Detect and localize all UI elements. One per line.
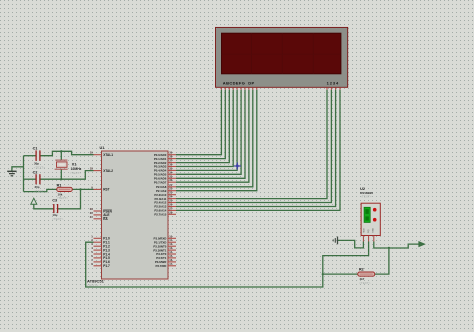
svg-text:25: 25 [169, 199, 172, 203]
svg-text:13: 13 [169, 246, 172, 250]
svg-text:39: 39 [169, 151, 172, 155]
pin P3.4/T0 (pin 14) [156, 250, 176, 256]
pin EA (pin 31) [90, 215, 109, 221]
U2 increment button [373, 208, 377, 212]
svg-text:32: 32 [169, 178, 172, 182]
svg-text:P2.7/A15: P2.7/A15 [154, 213, 166, 217]
pin P0.7/AD7 (pin 32) [154, 178, 176, 184]
pin P3.7/RD (pin 17) [155, 262, 176, 268]
svg-text:30: 30 [90, 211, 93, 215]
svg-text:ABCDEFG DP: ABCDEFG DP [223, 80, 255, 85]
pin P3.3/INT1 (pin 13) [153, 246, 176, 252]
wire XTAL2 net (C2 row, crystal bottom to XTAL2 pin) [24, 178, 36, 180]
wire XTAL1 net (C1 row to XTAL1 pin) [24, 155, 36, 157]
pin P1.0 (pin 1) [91, 234, 110, 240]
capacitor C1 [36, 150, 40, 161]
svg-text:26: 26 [169, 203, 172, 207]
wire display segment pin 5 to MCU [176, 90, 237, 171]
svg-text:18: 18 [90, 167, 93, 171]
crystal X1 [55, 160, 68, 169]
pin P1.2 (pin 3) [91, 242, 110, 248]
pin P0.4/AD4 (pin 35) [154, 166, 176, 172]
svg-text:34: 34 [169, 170, 172, 174]
svg-text:DQ: DQ [368, 229, 370, 233]
node crystal-top junction [60, 150, 62, 152]
svg-text:27: 27 [169, 206, 172, 210]
node R2-DQ junction [322, 273, 324, 275]
U2 pin stubs [363, 236, 373, 242]
svg-text:11: 11 [169, 238, 172, 242]
pin P0.0/AD0 (pin 39) [154, 151, 176, 157]
node crystal-bottom junction [60, 178, 62, 180]
wire display segment pin 3 to MCU [176, 90, 229, 163]
svg-text:37: 37 [169, 159, 172, 163]
pin P2.2/A10 (pin 23) [154, 191, 176, 197]
pin XTAL2 (pin 18) [90, 167, 113, 173]
wire RST net (rail to R1 to RST pin) [24, 189, 57, 191]
wire ground tap [12, 167, 24, 171]
svg-text:22: 22 [169, 187, 172, 191]
pin P0.5/AD5 (pin 34) [154, 170, 176, 176]
U2 decrement button [373, 218, 377, 222]
svg-text:<TEXT>: <TEXT> [70, 171, 82, 175]
svg-text:16: 16 [169, 258, 172, 262]
wire display digit pin 3 to MCU [176, 90, 336, 207]
pin P2.5/A13 (pin 26) [154, 203, 176, 209]
pin P3.6/WR (pin 16) [155, 258, 176, 264]
wire display segment pin 2 to MCU [176, 90, 225, 159]
svg-text:<TEXT>: <TEXT> [359, 281, 371, 285]
svg-text:P0.7/AD7: P0.7/AD7 [154, 180, 167, 184]
capacitor C2 [36, 174, 40, 184]
svg-text:19: 19 [90, 151, 93, 155]
7-segment display screen [222, 33, 341, 74]
pin P2.3/A11 (pin 24) [154, 195, 176, 201]
wire display segment pin 10 to MCU [176, 90, 257, 191]
svg-text:<TEXT>: <TEXT> [34, 165, 46, 169]
svg-text:<TEXT>: <TEXT> [34, 189, 46, 193]
svg-text:C2: C2 [33, 171, 38, 175]
7-segment display module body [216, 27, 348, 87]
svg-text:P3.7/RD: P3.7/RD [155, 264, 166, 268]
pin P3.2/INT0 (pin 12) [153, 242, 176, 248]
resistor R2 [358, 272, 375, 276]
microcontroller U1 body [102, 151, 169, 279]
svg-text:<TEXT>: <TEXT> [360, 194, 372, 198]
svg-text:<TEXT>: <TEXT> [86, 284, 98, 288]
pin P2.1/A9 (pin 22) [156, 187, 176, 193]
pin P1.3 (pin 4) [91, 246, 110, 252]
pin P1.4 (pin 5) [91, 250, 110, 256]
cursor cross marker [234, 163, 241, 170]
svg-text:U1: U1 [100, 146, 105, 150]
power terminal (right arrow) [419, 242, 425, 247]
wire R2 right lead to VCC net [375, 248, 389, 274]
svg-text:35: 35 [169, 166, 172, 170]
pin PSEN (pin 29) [90, 207, 113, 213]
pin P2.4/A12 (pin 25) [154, 199, 176, 205]
svg-text:C1: C1 [33, 147, 38, 151]
wire VCC arrow to C3 [34, 204, 54, 209]
pin P3.1/TXD (pin 11) [154, 238, 176, 244]
wire P1.1 to DS18B20 DQ (bottom rail) [86, 242, 369, 288]
pin RST (pin 9) [91, 185, 109, 191]
svg-text:GND: GND [372, 228, 374, 233]
display digit dividers [222, 33, 341, 74]
wire DS18B20 GND jog [338, 240, 364, 248]
pin P0.6/AD6 (pin 33) [154, 174, 176, 180]
wire display digit pin 4 to MCU [176, 90, 340, 211]
resistor R1 [57, 187, 72, 191]
wire display segment pin 4 to MCU [176, 90, 233, 167]
svg-text:VDD: VDD [363, 228, 365, 233]
wire display segment pin 6 to MCU [176, 90, 241, 175]
svg-text:23: 23 [169, 191, 172, 195]
svg-text:21: 21 [169, 183, 172, 187]
wire display segment pin 1 to MCU [176, 90, 221, 155]
wire C3 to RST junction [57, 189, 80, 208]
pin XTAL1 (pin 19) [90, 151, 113, 157]
wire display segment pin 9 to MCU [176, 90, 253, 187]
capacitor C3 [54, 204, 58, 213]
svg-text:<TEXT>: <TEXT> [52, 217, 64, 221]
svg-text:24: 24 [169, 195, 172, 199]
svg-text:1234: 1234 [327, 80, 340, 85]
svg-text:17: 17 [169, 262, 172, 266]
wire crystal bottom lead [60, 169, 62, 179]
pin ALE (pin 30) [90, 211, 110, 217]
pin P2.7/A15 (pin 28) [154, 210, 176, 216]
pin P1.1 (pin 2) [91, 238, 110, 244]
svg-text:RST: RST [103, 188, 109, 192]
svg-text:EA: EA [103, 217, 108, 221]
svg-text:X1: X1 [72, 163, 77, 167]
pin P0.1/AD1 (pin 38) [154, 155, 176, 161]
U2 pin names VDD DQ GND [363, 228, 374, 233]
pin P2.0/A8 (pin 21) [156, 183, 176, 189]
svg-text:38: 38 [169, 155, 172, 159]
svg-text:29: 29 [90, 207, 93, 211]
svg-text:10: 10 [169, 234, 172, 238]
pin P1.5 (pin 6) [91, 254, 110, 260]
svg-text:XTAL2: XTAL2 [103, 169, 113, 173]
svg-text:15: 15 [169, 254, 172, 258]
svg-text:28: 28 [169, 210, 172, 214]
pin P1.6 (pin 7) [91, 258, 110, 264]
pin P3.0/RXD (pin 10) [154, 234, 176, 240]
svg-text:31: 31 [90, 215, 93, 219]
temperature sensor U2 DS18B20 body [361, 203, 380, 235]
node RST-C3 junction [79, 188, 81, 190]
wire crystal top lead [60, 151, 62, 160]
svg-text:12: 12 [169, 242, 172, 246]
wire DS18B20 VDD to power arrow [374, 242, 419, 249]
U2 green display [364, 207, 370, 222]
pin P0.2/AD2 (pin 37) [154, 159, 176, 165]
svg-text:XTAL1: XTAL1 [103, 153, 113, 157]
svg-text:P1.7: P1.7 [103, 264, 110, 268]
svg-text:R2: R2 [359, 268, 364, 272]
display pin stubs [221, 87, 340, 90]
wire R2 left lead [323, 273, 358, 275]
svg-text:36: 36 [169, 163, 172, 167]
wire display digit pin 1 to MCU [176, 90, 327, 199]
power terminal VCC (up arrow) [31, 198, 37, 204]
wire display segment pin 7 to MCU [176, 90, 245, 179]
wire ground rail (left) [23, 156, 25, 192]
node R2-VCC junction [388, 247, 390, 249]
svg-text:14: 14 [169, 250, 172, 254]
wire display segment pin 8 to MCU [176, 90, 249, 182]
ground symbol (left) [7, 171, 16, 176]
pin P3.5/T1 (pin 15) [156, 254, 176, 260]
wire display digit pin 2 to MCU [176, 90, 331, 203]
pin P2.6/A14 (pin 27) [154, 206, 176, 212]
pin P1.7 (pin 8) [91, 262, 110, 268]
pin P0.3/AD3 (pin 36) [154, 163, 176, 169]
svg-text:33: 33 [169, 174, 172, 178]
ground symbol (near U2) [333, 237, 337, 245]
svg-text:<TEXT>: <TEXT> [57, 196, 69, 200]
svg-text:R1: R1 [57, 184, 62, 188]
